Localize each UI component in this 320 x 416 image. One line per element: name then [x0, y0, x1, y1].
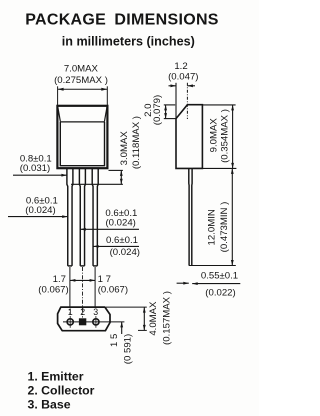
- svg-text:(0.354MAX ): (0.354MAX ): [219, 109, 230, 163]
- leader right A to lead 2: [80, 228, 139, 230]
- svg-text:(0.067): (0.067): [98, 284, 128, 295]
- front view body outline: [57, 106, 107, 168]
- dimension 4.0MAX lines: [106, 306, 147, 308]
- svg-text:1 7: 1 7: [98, 274, 111, 285]
- extension line lead 1 to bottom view: [69, 267, 71, 307]
- side view body outline: [176, 105, 202, 169]
- svg-text:(0.031): (0.031): [20, 163, 50, 174]
- svg-text:(0.022): (0.022): [205, 287, 235, 298]
- svg-text:(0.024): (0.024): [25, 205, 55, 216]
- dimension 1.7 line: [70, 279, 95, 281]
- svg-text:1. Emitter: 1. Emitter: [28, 370, 84, 384]
- front view top draft slant right: [104, 106, 107, 121]
- svg-text:(0.024): (0.024): [105, 218, 135, 229]
- dimension 9.0MAX lines: [202, 104, 235, 106]
- leader right B to lead 3: [93, 245, 139, 247]
- svg-text:(0.473MIN ): (0.473MIN ): [219, 202, 230, 253]
- extension line lead 2 centerline dash-dot: [82, 267, 84, 318]
- svg-text:in millimeters (inches): in millimeters (inches): [62, 34, 195, 48]
- dimension 1.5 line: [121, 322, 123, 334]
- svg-text:(0.024): (0.024): [110, 247, 140, 258]
- front view top draft slant left: [58, 106, 61, 121]
- svg-text:4.0MAX: 4.0MAX: [148, 301, 159, 336]
- svg-text:0.6±0.1: 0.6±0.1: [106, 235, 138, 246]
- extension line lead 3 to bottom view: [94, 267, 96, 307]
- svg-text:1: 1: [68, 307, 73, 317]
- svg-text:3: 3: [93, 307, 98, 317]
- front view body inner wall: [60, 122, 104, 166]
- bottom view outline: [58, 307, 110, 331]
- dimension 12.0MIN lines: [189, 265, 236, 267]
- svg-text:2: 2: [80, 307, 85, 317]
- svg-text:(0.118MAX ): (0.118MAX ): [131, 116, 142, 169]
- svg-text:9.0MAX: 9.0MAX: [208, 118, 219, 153]
- lead 1 front: [67, 169, 73, 266]
- dimension 0.55 arrows at lead: [177, 282, 189, 284]
- svg-text:(0.067): (0.067): [38, 284, 68, 295]
- svg-text:(0.157MAX ): (0.157MAX ): [162, 291, 173, 345]
- dimension 3.0MAX extension lines: [109, 169, 123, 171]
- svg-text:7.0MAX: 7.0MAX: [64, 64, 99, 75]
- svg-text:0.55±0.1: 0.55±0.1: [201, 270, 238, 281]
- svg-text:3. Base: 3. Base: [28, 398, 71, 412]
- dimension 1.2 lines: [175, 83, 177, 119]
- svg-text:12.0MIN: 12.0MIN: [206, 209, 217, 245]
- svg-text:(0 591): (0 591): [122, 334, 133, 364]
- lead 3 front: [92, 169, 98, 266]
- svg-text:(0.079): (0.079): [152, 95, 163, 125]
- pin 2: [79, 318, 86, 325]
- svg-text:(0.047): (0.047): [168, 71, 198, 82]
- dimension 7.0MAX arrows: [58, 88, 64, 91]
- side view lead: [189, 168, 192, 265]
- svg-text:(0.275MAX ): (0.275MAX ): [54, 75, 108, 86]
- bottom view centerline: [63, 321, 124, 323]
- leader 0.024 left to lead 1: [8, 216, 68, 218]
- pin 3: [93, 319, 99, 325]
- leader 0.031 to lead 1: [13, 174, 67, 176]
- svg-text:1.7: 1.7: [53, 274, 66, 285]
- svg-text:3.0MAX: 3.0MAX: [119, 131, 130, 166]
- svg-text:1 5: 1 5: [109, 334, 120, 347]
- lead 2 front: [79, 169, 85, 266]
- svg-text:2. Collector: 2. Collector: [28, 384, 95, 398]
- dimension 3.0MAX line: [120, 170, 122, 184]
- front view shoulder line: [60, 121, 104, 123]
- svg-text:1.2: 1.2: [174, 61, 187, 72]
- svg-text:PACKAGE DIMENSIONS: PACKAGE DIMENSIONS: [25, 12, 219, 29]
- dimension 7.0MAX lines: [58, 86, 108, 106]
- pin 1: [67, 319, 73, 325]
- dimension 2.0 lines: [164, 104, 175, 106]
